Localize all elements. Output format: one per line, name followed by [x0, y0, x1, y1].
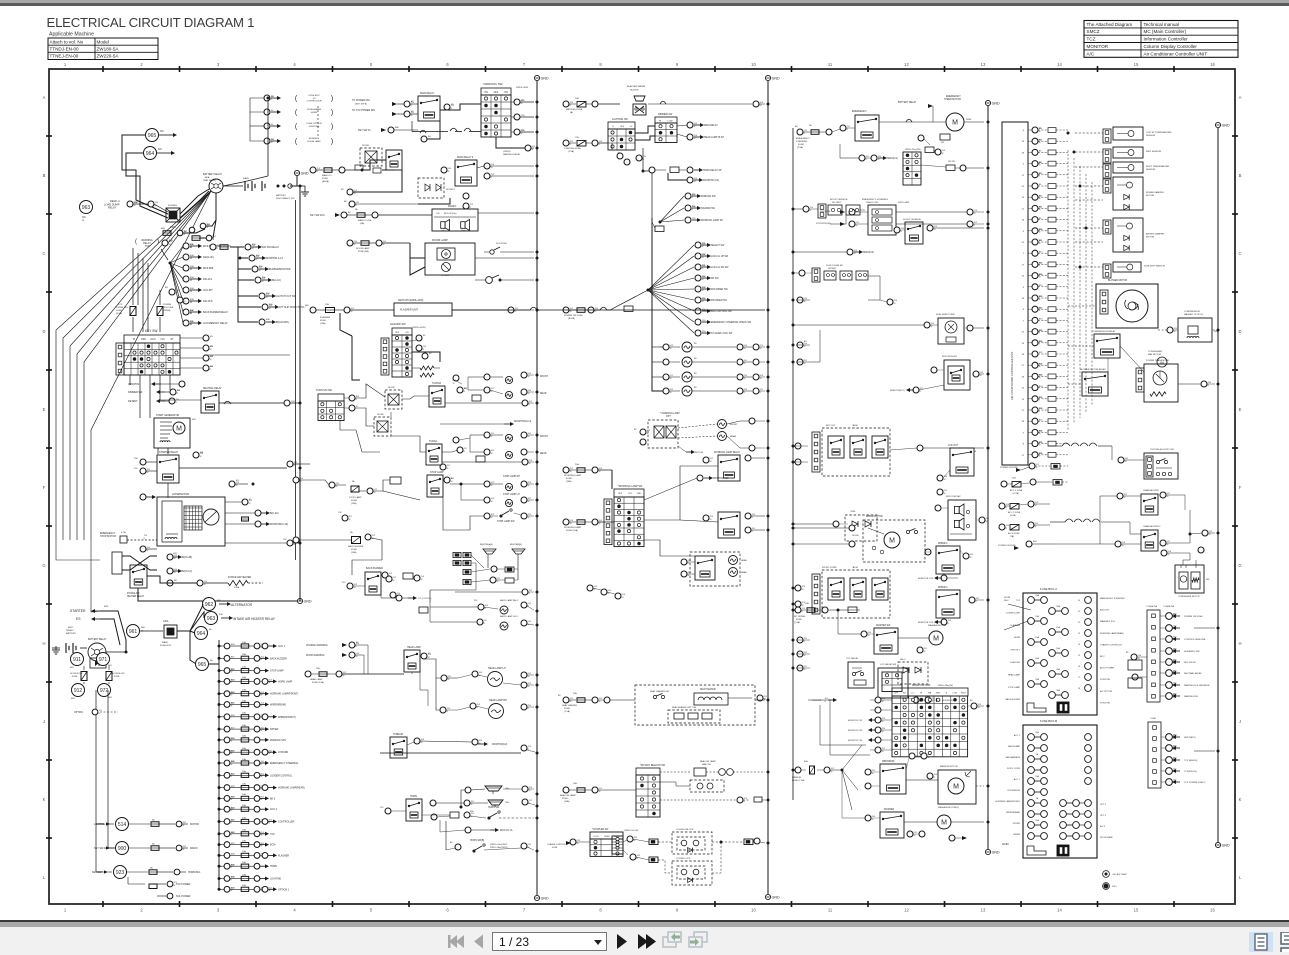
svg-text:POTENTIO(M): POTENTIO(M) [816, 223, 831, 225]
svg-text:12: 12 [1022, 175, 1025, 177]
first page button [448, 935, 464, 948]
svg-text:PARKING SOL: PARKING SOL [270, 739, 287, 742]
svg-text:W: W [491, 517, 493, 519]
svg-text:W: W [528, 501, 530, 503]
svg-text:MIST: MIST [936, 693, 941, 695]
svg-text:13: 13 [1022, 399, 1025, 401]
svg-text:2WD5+4KW: 2WD5+4KW [898, 202, 909, 204]
svg-text:MOTOR: MOTOR [1146, 237, 1155, 239]
ground GND top lane C [765, 75, 770, 80]
svg-text:W: W [942, 153, 944, 155]
svg-text:18: 18 [1022, 376, 1025, 378]
svg-text:ROOM: ROOM [1004, 597, 1011, 599]
svg-text:R: R [231, 867, 233, 869]
svg-text:RESERVE: RESERVE [309, 138, 320, 140]
fuse row DRYER [218, 724, 279, 732]
ground gnd lane A bottom [297, 598, 302, 603]
wires fusible to battery relay [180, 189, 209, 214]
svg-text:ELECTRICAL CIRCUIT DIAGRAM 1: ELECTRICAL CIRCUIT DIAGRAM 1 [47, 15, 255, 30]
svg-text:SW: SW [192, 419, 196, 421]
leveler conns [894, 227, 900, 233]
fuse row TCZ [218, 829, 275, 837]
svg-text:): ) [157, 239, 159, 245]
next page button [617, 934, 627, 949]
svg-text:+B(+B2) USED: +B(+B2) USED [1112, 874, 1127, 876]
svg-text:255: 255 [474, 600, 478, 602]
svg-text:R: R [752, 531, 754, 533]
row acc2 fuse [999, 503, 1005, 509]
svg-text:FUSE: FUSE [796, 619, 802, 621]
relay x2 [850, 436, 866, 458]
wire 965 to spine [209, 663, 219, 665]
svg-text:B(C6-4B): B(C6-4B) [182, 556, 192, 559]
svg-text:514: 514 [118, 822, 127, 828]
wire washer bus [951, 821, 984, 823]
svg-text:B01: B01 [70, 667, 75, 669]
svg-text:L4R: L4R [173, 553, 177, 555]
wire heater [147, 576, 197, 583]
svg-text:W: W [174, 558, 176, 560]
fuse row ACC 2 [218, 804, 278, 812]
svg-text:REAR: REAR [540, 392, 547, 395]
svg-text:5A: 5A [350, 531, 353, 534]
svg-text:HI/LO: HI/LO [900, 659, 906, 661]
svg-text:CONDENSER: CONDENSER [1148, 351, 1162, 353]
svg-text:W: W [1122, 545, 1124, 547]
connector 965b [196, 658, 209, 671]
connector [177, 230, 183, 236]
fuse [220, 245, 228, 250]
svg-text:W: W [261, 835, 263, 837]
ground GND top lane E [1215, 122, 1220, 127]
connector [140, 459, 146, 465]
svg-text:W: W [190, 269, 192, 271]
svg-text:Attach to vol. No: Attach to vol. No [50, 40, 84, 45]
svg-text:130A: 130A [234, 586, 240, 589]
svg-text:R: R [269, 822, 271, 824]
svg-text:C10: C10 [338, 512, 343, 514]
opt conns [640, 429, 646, 435]
svg-text:J: J [1239, 719, 1241, 724]
cluster1 pins [812, 432, 820, 472]
svg-text:B0: B0 [694, 387, 697, 389]
svg-text:MONITOR(C-20): MONITOR(C-20) [270, 523, 288, 526]
wiper3 bus [969, 597, 975, 603]
row 310 left [310, 307, 316, 313]
svg-text:INTAKE AIR HEATER RELAY: INTAKE AIR HEATER RELAY [233, 617, 276, 621]
svg-text:MCZ OUT: MCZ OUT [826, 425, 836, 427]
wire [183, 229, 205, 233]
svg-text:ZW220-5A: ZW220-5A [97, 54, 120, 59]
horn relay [406, 799, 422, 821]
svg-text:W: W [702, 290, 704, 292]
relay wires [1068, 345, 1094, 347]
wire arrow from 964 [157, 152, 171, 154]
mcd conns [935, 505, 941, 511]
row emsteer fuse [797, 129, 803, 135]
svg-text:WASHER MOTOR(2): WASHER MOTOR(2) [938, 806, 959, 809]
svg-text:FUSE: FUSE [351, 549, 357, 551]
horn sw [450, 812, 459, 818]
fuse box B [1023, 725, 1097, 858]
svg-text:W: W [169, 244, 171, 246]
svg-text:SLOW BLOW: SLOW BLOW [70, 673, 82, 675]
row detent [169, 398, 175, 404]
wires em motor [879, 121, 946, 123]
lamp row [663, 344, 669, 350]
svg-text:W: W [491, 501, 493, 503]
svg-text:): ) [331, 110, 333, 117]
svg-text:MIRROR: MIRROR [792, 777, 801, 779]
svg-text:911: 911 [73, 657, 81, 663]
boost wires [830, 215, 846, 224]
svg-text:INTAKE AIR HEATER: INTAKE AIR HEATER [228, 576, 251, 579]
svg-text:M: M [952, 120, 958, 127]
mirror wires [906, 779, 938, 781]
svg-text:PARKING SOL RESERVE: PARKING SOL RESERVE [1184, 684, 1210, 687]
hi beam relay [390, 737, 407, 758]
svg-text:10A: 10A [573, 782, 577, 785]
svg-text:MOTOR: MOTOR [190, 823, 199, 826]
turn lamp row rear L [484, 449, 490, 455]
wire fan ends [56, 540, 100, 560]
svg-text:8: 8 [599, 908, 602, 913]
svg-text:POSITION: POSITION [1100, 679, 1110, 681]
svg-text:TTNDJ-EN-00: TTNDJ-EN-00 [50, 47, 80, 52]
svg-text:A/C OPTION: A/C OPTION [1100, 690, 1113, 693]
ground GND bottom lane D [985, 849, 990, 854]
svg-text:FLASHER UNIT: FLASHER UNIT [400, 309, 419, 312]
wire fan from battery relay [56, 191, 211, 540]
svg-text:The Attached Diagram: The Attached Diagram [1087, 22, 1133, 27]
wiper motor box [863, 520, 925, 562]
svg-text:W: W [491, 485, 493, 487]
wiper conns left [849, 525, 855, 531]
svg-text:SOLET LEVELER: SOLET LEVELER [903, 219, 921, 221]
svg-text:30A: 30A [1035, 731, 1039, 734]
svg-text:DIMM-2: DIMM-2 [66, 630, 75, 632]
svg-text:W: W [491, 391, 493, 393]
connector [177, 297, 183, 303]
svg-text:8: 8 [599, 62, 602, 67]
svg-text:14: 14 [1057, 62, 1062, 67]
changeover wires [1056, 496, 1117, 544]
slow blow fuse 2 [106, 672, 112, 681]
svg-text:GND: GND [301, 171, 309, 175]
svg-text:R: R [528, 708, 530, 710]
radio box [432, 209, 478, 231]
relay in opt [654, 426, 664, 438]
wire room right [475, 257, 534, 259]
svg-text:5: 5 [1023, 432, 1025, 434]
svg-text:R: R [99, 713, 101, 715]
turn relay R [429, 386, 445, 407]
wire battrelay [106, 651, 126, 653]
connector row parking [514, 114, 520, 120]
wire seat [728, 697, 752, 699]
svg-text:DRYER: DRYER [270, 728, 279, 731]
mcd2 conns [931, 367, 937, 373]
svg-text:W: W [447, 468, 449, 470]
svg-text:W: W [599, 701, 601, 703]
svg-text:W: W [931, 326, 933, 328]
svg-text:SOLET LEVELER: SOLET LEVELER [826, 265, 843, 267]
coupler rects [627, 836, 633, 842]
hazard left pins [381, 338, 389, 375]
cluster2 conns [795, 585, 801, 591]
svg-text:16: 16 [1210, 62, 1215, 67]
svg-text:ACC 2: ACC 2 [270, 808, 278, 811]
connector [349, 201, 355, 207]
svg-text:Technical manual: Technical manual [1144, 22, 1180, 27]
svg-text:BEACON LAMP: BEACON LAMP [560, 794, 576, 797]
svg-text:MCD DISPLAY: MCD DISPLAY [946, 495, 961, 498]
svg-text:B06: B06 [262, 277, 266, 279]
fuse row HORN [218, 861, 278, 869]
svg-text:MONITOR(C2): MONITOR(C2) [890, 390, 905, 392]
svg-text:A: A [1239, 95, 1242, 100]
connector [255, 521, 261, 527]
component INTAKE DAMPER [1113, 177, 1143, 210]
svg-text:W: W [1035, 526, 1037, 528]
svg-text:W: W [1039, 131, 1041, 133]
turn lamp row rear R [484, 387, 490, 393]
left bus row 300 [797, 297, 803, 303]
wire fanout bottom [830, 769, 842, 771]
svg-text:R: R [256, 259, 258, 261]
svg-text:14: 14 [1057, 908, 1062, 913]
wire hop texture 1 [224, 401, 231, 404]
dashed relay cluster 1 [822, 428, 890, 476]
svg-text:R: R [934, 777, 936, 779]
condenser motor unit [1175, 565, 1204, 593]
fan group 2 [648, 245, 694, 290]
svg-text:W: W [1209, 534, 1211, 536]
wire roomlamp path [410, 243, 425, 258]
svg-text:27: 27 [1022, 365, 1025, 367]
power transistor [1144, 364, 1178, 402]
svg-text:5A: 5A [152, 843, 155, 846]
svg-text:1: 1 [64, 908, 67, 913]
svg-text:MONITOR C32: MONITOR C32 [848, 720, 863, 722]
row acc1 fuse [1001, 481, 1007, 487]
row b c20 [229, 481, 235, 487]
fuse row EMERGENCY STEERING [218, 758, 299, 766]
svg-text:9: 9 [676, 908, 679, 913]
svg-text:L: L [43, 875, 46, 880]
wiper grid left rows [875, 697, 881, 703]
turn sw conns [349, 395, 355, 401]
battery relay [209, 179, 223, 193]
svg-text:TURN-L: TURN-L [429, 440, 438, 443]
A/C pin connectors [1032, 127, 1038, 133]
washer2 arrow [949, 835, 955, 841]
changeover relay 2 [1141, 530, 1158, 551]
svg-text:W: W [200, 456, 202, 458]
fuse row BACK BUZZER [218, 653, 287, 661]
svg-text:BLASTER WATER: BLASTER WATER [627, 85, 646, 88]
connector [167, 580, 173, 586]
svg-text:STOP LAMP: STOP LAMP [1008, 686, 1020, 689]
svg-text:B4: B4 [428, 136, 431, 138]
svg-text:L: L [1239, 875, 1242, 880]
connector strip C2 [1148, 722, 1161, 788]
svg-text:W: W [453, 383, 455, 385]
svg-text:W: W [147, 472, 149, 474]
row room lamp fuse [347, 240, 353, 246]
svg-text:20: 20 [1022, 242, 1025, 244]
row power fuse [563, 307, 569, 313]
connector [451, 381, 453, 383]
neutral relay [201, 391, 219, 413]
wire [355, 203, 418, 205]
svg-text:R: R [825, 701, 827, 703]
svg-text:150: 150 [702, 298, 706, 300]
svg-text:RH-2: RH-2 [1004, 600, 1010, 602]
horn sw b row [455, 844, 461, 850]
svg-text:965: 965 [148, 133, 157, 139]
svg-text:W: W [261, 730, 263, 732]
svg-text:*ALIM: *ALIM [852, 566, 858, 569]
svg-text:M: M [941, 820, 947, 827]
svg-text:962: 962 [205, 602, 214, 608]
svg-text:MAGNET CLUTCH: MAGNET CLUTCH [1184, 313, 1203, 316]
svg-text:R: R [210, 369, 212, 371]
wire parens bus [250, 98, 264, 112]
svg-text:OPT 4: OPT 4 [1100, 804, 1107, 806]
connector strip C1 [1147, 610, 1160, 702]
svg-text:W: W [269, 308, 271, 310]
svg-text:R: R [948, 623, 950, 625]
svg-text:BATTERY FUSE: BATTERY FUSE [566, 108, 583, 111]
svg-text:RADIO: RADIO [190, 847, 198, 850]
fuse [163, 231, 171, 236]
svg-text:R: R [515, 311, 517, 313]
svg-text:A06: A06 [169, 239, 174, 242]
svg-text:10A: 10A [242, 699, 246, 702]
fuse row RADIO [94, 842, 198, 855]
check sw right rows [967, 209, 973, 215]
svg-text:15A: 15A [505, 787, 509, 790]
svg-text:CONTROLLER: CONTROLLER [307, 101, 322, 103]
svg-text:DIODE: DIODE [852, 535, 859, 537]
svg-text:START GENERATOR: START GENERATOR [156, 414, 179, 417]
small rect wiper [848, 607, 857, 613]
svg-text:MONITOR C33: MONITOR C33 [848, 730, 863, 732]
svg-text:HI: HI [659, 121, 662, 123]
svg-text:TCZ(B15/16): TCZ(B15/16) [1184, 771, 1197, 773]
svg-text:W: W [497, 581, 499, 583]
svg-text:ST GEAR LOCK SW: ST GEAR LOCK SW [711, 332, 733, 335]
blower motor relay [1082, 372, 1108, 396]
viewer top dark line [0, 3, 1289, 6]
svg-text:R: R [144, 538, 146, 540]
svg-text:W: W [670, 392, 672, 394]
continuous view icon [1279, 932, 1289, 952]
svg-text:B00: B00 [141, 627, 146, 629]
svg-text:15A: 15A [316, 667, 320, 670]
svg-text:FUSE (15A): FUSE (15A) [566, 529, 578, 532]
connector [404, 111, 410, 117]
diode box L [374, 417, 391, 436]
fuse power dig 2 [157, 307, 163, 316]
svg-text:TO (C-PLUG): TO (C-PLUG) [418, 598, 432, 600]
svg-text:HEAD LAMP: HEAD LAMP [310, 678, 323, 681]
svg-text:COMPRESSOR RELAY: COMPRESSOR RELAY [1092, 330, 1116, 333]
connector 912 [72, 684, 85, 697]
wire interconnect mid [300, 463, 310, 465]
svg-text:HEAD LAMP RH: HEAD LAMP RH [489, 699, 507, 702]
svg-text:FUSE: FUSE [552, 847, 558, 849]
svg-text:4: 4 [293, 908, 296, 913]
svg-text:15A: 15A [1012, 477, 1016, 480]
svg-text:CHECK SW: CHECK SW [866, 202, 879, 204]
svg-text:11: 11 [828, 62, 833, 67]
buzzer wires [471, 554, 488, 556]
svg-text:LOW: LOW [953, 693, 958, 695]
svg-text:BACK BUZZER RELAY: BACK BUZZER RELAY [203, 311, 228, 314]
svg-text:LIGHTING: LIGHTING [270, 878, 281, 881]
svg-text:C-05(B07)A: C-05(B07)A [1146, 605, 1158, 608]
svg-text:ON: ON [504, 91, 508, 94]
svg-text:B0: B0 [795, 126, 798, 128]
svg-text:SEAT HEATER UNIT 75A: SEAT HEATER UNIT 75A [672, 706, 696, 709]
turn R bus row [522, 400, 528, 406]
svg-text:*WORKING LAMP SW: *WORKING LAMP SW [618, 485, 643, 488]
turn lamp row front L [484, 432, 490, 438]
svg-text:W: W [702, 246, 704, 248]
svg-text:SLOW BLOW: SLOW BLOW [112, 673, 124, 675]
svg-text:10A: 10A [242, 804, 246, 807]
svg-text:W: W [882, 701, 884, 703]
wire working bottom [644, 540, 695, 556]
fuse row MOTOR [94, 818, 199, 831]
svg-text:W: W [1039, 366, 1041, 368]
svg-text:W: W [448, 679, 450, 681]
changeover relay 1 [1141, 494, 1158, 515]
stop lamp row lh [484, 497, 490, 503]
svg-text:W: W [354, 587, 356, 589]
svg-text:BATTERY: BATTERY [66, 632, 76, 635]
svg-text:CHANGEOVER 2: CHANGEOVER 2 [1143, 525, 1161, 528]
svg-text:9: 9 [676, 62, 679, 67]
svg-text:BK 2: BK 2 [270, 797, 276, 800]
svg-text:B0: B0 [210, 660, 213, 662]
svg-text:BOOST SENSOR: BOOST SENSOR [830, 199, 848, 201]
svg-text:11: 11 [1078, 611, 1080, 613]
svg-text:B02: B02 [71, 698, 76, 700]
svg-text:DISCONNECT SW: DISCONNECT SW [276, 198, 295, 200]
working relay 2 [718, 512, 740, 538]
svg-text:12: 12 [1078, 622, 1080, 624]
svg-text:(2WD5+18m)ONLY: (2WD5+18m)ONLY [490, 844, 508, 846]
svg-text:W: W [1125, 461, 1127, 463]
svg-text:R: R [744, 801, 746, 803]
svg-text:961: 961 [129, 629, 138, 635]
svg-text:10A: 10A [242, 689, 246, 692]
dashed box opt [648, 420, 678, 448]
svg-text:10A: 10A [242, 770, 246, 773]
fuse row ECM [218, 839, 276, 847]
svg-text:3: 3 [217, 908, 220, 913]
svg-text:152: 152 [283, 539, 287, 541]
svg-text:W: W [702, 279, 704, 281]
svg-text:TTNEJ-EN-00: TTNEJ-EN-00 [50, 54, 79, 59]
svg-text:HORN/SOL: HORN/SOL [188, 871, 201, 874]
svg-text:WIPER 3: WIPER 3 [938, 587, 948, 589]
svg-text:W: W [804, 346, 806, 348]
svg-text:STOP LAMP LH: STOP LAMP LH [503, 493, 520, 496]
